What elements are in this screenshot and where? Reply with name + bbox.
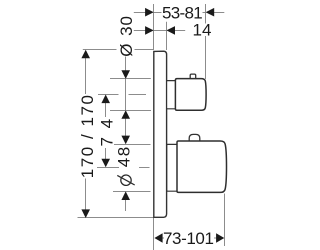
tab on upper knob (190, 74, 196, 84)
dim 74 line (105, 102, 107, 117)
ext line knob2 center (97, 167, 119, 169)
arrow O30 bottom (121, 110, 130, 119)
ext line knob1 top (110, 78, 151, 80)
stem lower knob (167, 144, 179, 191)
arrow 73-101 right (216, 233, 224, 242)
ext line plate front (right end of 14) (166, 22, 168, 50)
arrow 74 bottom (101, 159, 110, 168)
svg-text:30: 30 (117, 15, 136, 36)
dim 14 line (134, 30, 146, 32)
arrow 73-101 left (154, 233, 162, 242)
arrow 74 top (101, 95, 110, 104)
arrow 170 top (81, 50, 90, 59)
svg-text:48: 48 (114, 145, 133, 167)
svg-text:7 4: 7 4 (97, 117, 116, 147)
ext line knob1 front (right end of 53-81) (205, 4, 207, 24)
dimension lines (gray tails/stubs) (86, 13, 225, 239)
svg-text:73-101: 73-101 (163, 229, 214, 248)
ext line knob2 bottom (113, 191, 151, 193)
dim 53-81 line (134, 12, 146, 14)
upper knob body (175, 79, 206, 111)
ext line plate bottom (170/170) (78, 217, 154, 219)
arrow O48 bottom (121, 191, 130, 200)
ext line knob1 bottom (110, 110, 151, 112)
dim 73-101 line (162, 237, 164, 239)
arrow O30 top (121, 70, 130, 79)
extension lines (gray) (78, 4, 225, 250)
ext line knob2 top (114, 144, 151, 146)
arrow O48 top (121, 136, 130, 145)
ext line wall top (left end of 53-81 and 14) (153, 4, 155, 50)
arrow 170 bottom (81, 209, 90, 218)
ext line plate top (170/170) (83, 49, 117, 51)
dim Ø48 tail below (125, 199, 127, 211)
arrow 53-81 left (145, 8, 154, 17)
dim 170/170 line (85, 57, 87, 94)
diameter symbol of O48 label (117, 175, 134, 185)
ext line wall bottom (left end of 73-101) (153, 218, 155, 250)
svg-text:170 / 170: 170 / 170 (78, 93, 97, 178)
arrow 14 right (166, 26, 175, 35)
plate (escutcheon side view) (154, 51, 167, 217)
bump on lower knob (189, 134, 200, 145)
arrowheads (black) (81, 8, 224, 243)
ext line knob1 center (98, 94, 119, 96)
dim Ø30 line (125, 57, 127, 72)
svg-text:Ø: Ø (117, 44, 136, 57)
arrow 14 left (145, 26, 154, 35)
ext line knob2 front (right end of 73-101) (224, 194, 226, 247)
svg-text:14: 14 (193, 21, 212, 40)
stem upper knob (167, 81, 178, 109)
lower knob body (177, 141, 227, 192)
dim texts (97, 3, 213, 248)
svg-text:53-81: 53-81 (162, 3, 202, 22)
arrow 53-81 right (206, 8, 215, 17)
